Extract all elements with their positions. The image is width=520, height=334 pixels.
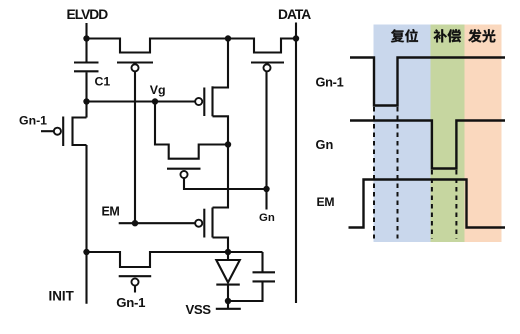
svg-text:Gn: Gn: [259, 212, 275, 224]
OLED D1 triangle: [216, 260, 240, 283]
transistor T4 drain lead from rail: [213, 39, 229, 88]
transistor T3 gate bubble: [54, 128, 61, 135]
transistor T7 gate bubble: [131, 278, 138, 285]
wire T3 gate lead: [41, 130, 54, 132]
svg-text:Vg: Vg: [150, 83, 166, 97]
label 补偿: [434, 29, 461, 42]
waveform Gn: [350, 121, 505, 169]
svg-text:INIT: INIT: [49, 288, 75, 303]
wire DATA stub: [295, 23, 297, 39]
transistor T1 gate bubble: [131, 64, 138, 71]
wire T6 source to bottom rail: [213, 238, 229, 253]
svg-text:ELVDD: ELVDD: [67, 7, 109, 22]
capacitor C1 plates: [74, 63, 99, 72]
wire T7 gate stub: [134, 286, 136, 293]
transistor T2 gate bubble: [263, 64, 270, 71]
transistor T6 channel bar: [211, 208, 213, 238]
label 复位: [391, 29, 418, 42]
transistor T4 gate bubble: [195, 98, 202, 105]
node DATA junction: [293, 35, 299, 41]
transistor T1 gate bar: [117, 61, 153, 63]
svg-text:EM: EM: [102, 205, 120, 219]
phase band emission (orange): [465, 25, 502, 243]
transistor T2 gate bar: [251, 61, 284, 63]
svg-text:Gn-1: Gn-1: [316, 75, 344, 90]
power rail ELVDD stub: [85, 23, 87, 39]
waveform Gn-1: [350, 58, 505, 106]
dashed edge marker 1: [373, 107, 375, 239]
svg-text:Gn: Gn: [316, 137, 334, 152]
gate bubbles: [54, 64, 271, 285]
wire left column upper: [85, 102, 87, 118]
dashed edge marker 3: [431, 170, 433, 239]
node ELVDD junction: [83, 35, 89, 41]
svg-text:EM: EM: [317, 195, 335, 209]
node OLED anode: [225, 249, 231, 255]
transistor T5 gate bubble: [180, 171, 187, 178]
transistor T4 gate bar: [203, 88, 205, 117]
phase band reset (blue): [374, 25, 431, 243]
node Vg: [152, 98, 158, 104]
node Gn junction: [263, 186, 269, 192]
transistor T7 gate bar: [119, 275, 152, 277]
capacitor C2 top lead: [261, 252, 263, 272]
capacitor C2 plates: [253, 272, 276, 281]
capacitor C1 top lead: [85, 39, 87, 62]
capacitor C2 bottom lead: [228, 282, 263, 301]
svg-text:Gn-1: Gn-1: [19, 113, 47, 127]
node bottom rail left: [83, 249, 89, 255]
transistor T4 channel bar: [211, 86, 213, 116]
wire left column lower: [85, 145, 87, 304]
svg-text:VSS: VSS: [186, 302, 212, 317]
transistor T3 channel loop: [73, 118, 87, 146]
wire T1 gate to EM node: [134, 72, 136, 224]
wire bottom rail with transistor T7 channel dip: [87, 252, 263, 267]
phase band compensation (green): [431, 25, 465, 243]
node top rail / T4 drain: [225, 35, 231, 41]
transistor T6 gate bar: [203, 209, 205, 238]
OLED D1 cathode lead: [227, 285, 229, 301]
transistor T5 gate bar: [167, 168, 201, 170]
svg-text:DATA: DATA: [278, 7, 311, 22]
transistor T3 gate bar: [62, 117, 64, 147]
capacitor C1 bottom lead: [85, 72, 87, 101]
wire Vg rail: [87, 100, 195, 102]
dashed edge marker 4: [455, 170, 457, 239]
wire T2 gate down (Gn line): [265, 72, 267, 210]
svg-text:C1: C1: [95, 74, 111, 88]
node EM junction: [132, 220, 138, 226]
node OLED cathode: [225, 298, 231, 304]
label 发光: [468, 29, 495, 42]
VSS terminal bar: [216, 308, 241, 310]
wire Vg down and transistor T5 channel loop: [155, 102, 228, 159]
transistor T6 gate bubble: [195, 220, 202, 227]
dashed edge marker 2: [397, 107, 399, 239]
node Vg left: [83, 98, 89, 104]
OLED D1 anode lead: [227, 252, 229, 260]
waveform EM: [349, 180, 506, 228]
svg-text:Gn-1: Gn-1: [116, 295, 145, 310]
wire DATA column: [295, 39, 297, 304]
OLED D1 cathode bar: [216, 284, 240, 286]
wire T4 source down to node B and T6 drain: [213, 116, 229, 207]
wire top rail with transistor T1 and T2 channel dips: [87, 39, 297, 53]
node B (T4/T5 junction): [225, 141, 231, 147]
wire T5 gate to Gn line: [184, 178, 267, 189]
VSS stub: [227, 301, 229, 309]
wire EM rail: [119, 222, 195, 224]
